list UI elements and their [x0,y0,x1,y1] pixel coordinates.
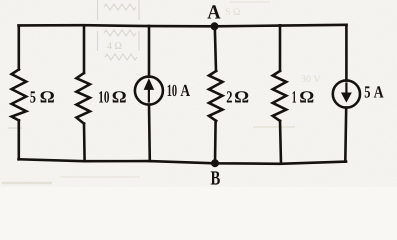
svg-text:10: 10 [98,88,109,107]
svg-text:A: A [374,83,385,102]
svg-text:5: 5 [364,83,370,102]
wire: 10-ohm branch top segment [83,26,86,73]
label: 10 ohm value [98,88,126,107]
svg-text:2: 2 [226,87,232,106]
label: node B [211,167,221,189]
ghost bleed-through artwork (faint print-through from page reverse) [2,0,321,183]
wire: left branch bottom segment [17,120,20,159]
wire: 2-ohm branch top segment [215,26,216,71]
label: 1 ohm value [292,87,315,106]
wire: 10A source branch top segment [148,26,151,77]
wire: left branch top segment [17,26,20,70]
wire: 10-ohm branch bottom segment [83,124,86,162]
label: 5 ohm value [30,88,55,107]
wire: bottom rail through node B [19,159,347,164]
svg-text:Ω: Ω [40,88,55,107]
resistor 5 ohm [12,69,27,120]
svg-text:30 V: 30 V [301,74,321,85]
label: 10 A value [167,81,191,100]
svg-text:S Ω: S Ω [225,7,241,18]
svg-text:4 Ω: 4 Ω [107,41,122,52]
node A (junction dot) [211,22,219,30]
wire: 1-ohm branch top segment [279,25,282,71]
svg-text:5: 5 [30,88,36,107]
wire: 2-ohm branch bottom segment [214,121,217,163]
svg-text:A: A [207,2,221,24]
svg-text:Ω: Ω [299,87,314,106]
svg-text:Ω: Ω [112,88,127,107]
current source 10 A (arrow up) [135,77,163,105]
svg-text:Ω: Ω [234,87,249,106]
resistor 1 ohm [273,71,287,121]
label: node A [207,2,221,24]
resistor 2 ohm [209,71,223,121]
wire: 5A source branch top segment [345,25,348,81]
svg-text:B: B [211,167,221,187]
wire: top rail through node A [19,25,347,27]
current source 5 A (arrow down) [333,80,360,107]
wire: 5A source branch bottom segment [344,108,348,162]
wire: 10A source branch bottom segment [148,105,151,162]
label: 5 A value [364,83,384,102]
resistor 10 ohm [76,73,90,124]
svg-text:A: A [180,81,190,100]
wire: 1-ohm branch bottom segment [280,121,281,164]
svg-text:1: 1 [292,87,297,106]
svg-text:10: 10 [167,81,177,100]
node B (junction dot) [211,159,219,167]
label: 2 ohm value [226,87,249,106]
